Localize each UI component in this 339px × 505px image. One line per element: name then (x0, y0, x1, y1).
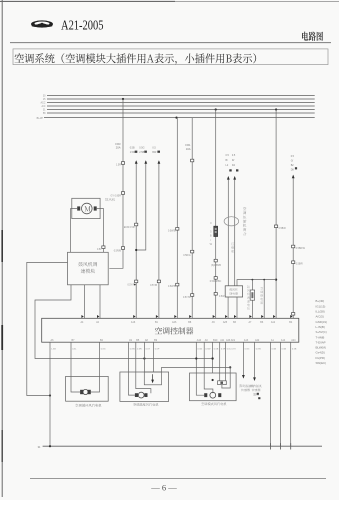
svg-text:FR1: FR1 (185, 143, 191, 147)
svg-text:2.5B: 2.5B (139, 151, 144, 154)
svg-text:A13: A13 (244, 339, 249, 342)
svg-text:0.5G: 0.5G (139, 147, 144, 150)
svg-text:B/: B/ (226, 159, 229, 162)
svg-text:0.5W/B: 0.5W/B (168, 230, 176, 232)
svg-text:— 6 —: — 6 — (150, 483, 177, 493)
svg-text:0.5B: 0.5B (272, 348, 277, 350)
svg-text:0.5R/B: 0.5R/B (114, 250, 122, 253)
svg-text:20A: 20A (116, 146, 121, 150)
svg-text:0.5G: 0.5G (245, 348, 250, 350)
svg-text:A24: A24 (291, 339, 296, 342)
svg-text:0.5P: 0.5P (155, 348, 160, 350)
svg-text:A12: A12 (271, 321, 276, 324)
svg-text:IG1(15): IG1(15) (316, 304, 326, 308)
svg-text:A19: A19 (231, 339, 236, 342)
svg-text:S+5V(C): S+5V(C) (316, 330, 327, 334)
svg-text:0.5R: 0.5R (137, 348, 142, 350)
svg-text:Dx(PR): Dx(PR) (316, 356, 326, 360)
svg-text:0.5G: 0.5G (198, 348, 203, 350)
svg-text:R/: R/ (232, 159, 235, 162)
svg-text:GY 0.85R: GY 0.85R (111, 195, 122, 198)
svg-text:L-IN(B): L-IN(B) (316, 325, 325, 329)
svg-text:0.5BR/W: 0.5BR/W (296, 248, 306, 250)
svg-text:0.5Y/R: 0.5Y/R (127, 285, 134, 287)
svg-text:0.5L: 0.5L (97, 249, 102, 251)
svg-text:A14: A14 (281, 339, 286, 342)
svg-text:BLJ/P: BLJ/P (37, 117, 44, 120)
svg-text:B+(30): B+(30) (316, 299, 325, 303)
svg-text:A26: A26 (172, 321, 177, 324)
svg-text:A22: A22 (255, 339, 260, 342)
svg-text:T-AMB: T-AMB (316, 335, 325, 339)
svg-text:0.5W: 0.5W (219, 296, 225, 298)
svg-text:0.5B/R: 0.5B/R (279, 228, 286, 230)
svg-text:FR3: FR3 (115, 142, 121, 146)
svg-text:1.5B: 1.5B (51, 348, 56, 350)
svg-text:0.5B: 0.5B (282, 348, 287, 350)
svg-text:0.5W/R/BC: 0.5W/R/BC (210, 281, 222, 283)
svg-text:0.5W/B: 0.5W/B (168, 286, 176, 288)
svg-text:A10: A10 (197, 339, 202, 342)
svg-text:A21-2005: A21-2005 (61, 19, 104, 34)
svg-text:SW(EC): SW(EC) (316, 361, 327, 365)
svg-text:0.5G: 0.5G (101, 348, 106, 350)
svg-text:ILL(58): ILL(58) (316, 310, 325, 314)
svg-text:0.5B: 0.5B (214, 348, 219, 350)
svg-text:0.5Y/W: 0.5Y/W (183, 297, 191, 299)
svg-text:0.5R/G: 0.5R/G (183, 255, 190, 257)
svg-text:(S)0.5B/R: (S)0.5B/R (211, 265, 221, 267)
svg-text:10A: 10A (186, 147, 191, 151)
svg-text:1.5R: 1.5R (116, 164, 121, 167)
svg-text:0.5Y/B: 0.5Y/B (150, 285, 157, 287)
svg-text:A/C(5): A/C(5) (316, 315, 324, 319)
svg-text:ECM 0.5R: ECM 0.5R (124, 227, 135, 229)
svg-text:A11: A11 (220, 339, 225, 342)
svg-text:Gx4(D): Gx4(D) (316, 351, 325, 355)
svg-text:0.5Y: 0.5Y (231, 348, 236, 350)
svg-text:GND(31): GND(31) (316, 320, 328, 324)
svg-text:G/: G/ (291, 160, 294, 163)
svg-text:B: B (210, 234, 212, 238)
svg-text:A25: A25 (223, 321, 228, 324)
svg-text:A16: A16 (131, 321, 136, 324)
svg-text:BLW(M): BLW(M) (316, 346, 326, 350)
svg-text:T-EVAP: T-EVAP (316, 340, 326, 344)
svg-text:0.5B/R: 0.5B/R (296, 264, 303, 266)
svg-text:0.5B: 0.5B (292, 348, 297, 350)
svg-text:0.5Y: 0.5Y (146, 348, 151, 350)
svg-text:B10: B10 (213, 339, 218, 342)
svg-text:0.5B: 0.5B (130, 147, 135, 150)
svg-text:B/R: B/R (152, 151, 156, 154)
